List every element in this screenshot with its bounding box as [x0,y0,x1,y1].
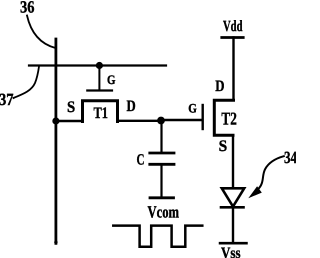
svg-text:G: G [188,101,197,116]
T1 gate stub wire [98,66,100,91]
wire capacitor to Vcom terminal [160,166,162,197]
svg-text:S: S [67,99,75,116]
wire T2 source to diode [232,136,234,188]
diode 34 triangle [222,188,244,206]
svg-text:34: 34 [284,148,296,167]
T2 gate bar [201,105,203,129]
wire gate line horizontal [29,64,166,66]
svg-text:S: S [219,138,228,155]
capacitor C top plate [150,152,174,155]
wire diode to Vss [232,207,234,243]
svg-text:G: G [107,72,116,87]
diode cathode bar [221,206,244,209]
svg-text:D: D [127,98,136,115]
wire source to T1 [56,120,81,122]
transistor T1 channel [83,101,118,122]
wire T1 drain to node [118,120,162,122]
svg-text:37: 37 [0,90,14,109]
svg-text:Vdd: Vdd [223,18,243,35]
leader arrow 34 curve [258,156,284,189]
svg-text:D: D [215,78,224,95]
wire data line vertical [55,39,58,243]
svg-text:T2: T2 [221,109,237,129]
svg-text:C: C [137,152,145,169]
capacitor C bottom plate [150,163,174,166]
junction dot gate line [96,62,103,69]
T1 gate plate [87,89,112,91]
svg-text:36: 36 [20,0,35,17]
leader arrow 34 head [248,186,261,198]
wire node to T2 gate [161,119,202,121]
leader line 36 [27,16,56,49]
pulse waveform [113,226,202,247]
Vdd power bar [222,36,243,39]
transistor T2 channel [214,100,233,135]
junction dot source [52,117,59,124]
Vcom terminal bar [150,196,174,199]
Vss bar [220,242,246,245]
data line end blob [54,241,57,244]
svg-text:Vcom: Vcom [148,202,180,221]
node dot [157,117,165,125]
wire Vdd to T2 drain [232,38,234,101]
leader line 37 [14,67,40,99]
wire node down to capacitor [160,121,162,152]
svg-text:Vss: Vss [221,245,241,258]
svg-text:T1: T1 [94,105,109,122]
